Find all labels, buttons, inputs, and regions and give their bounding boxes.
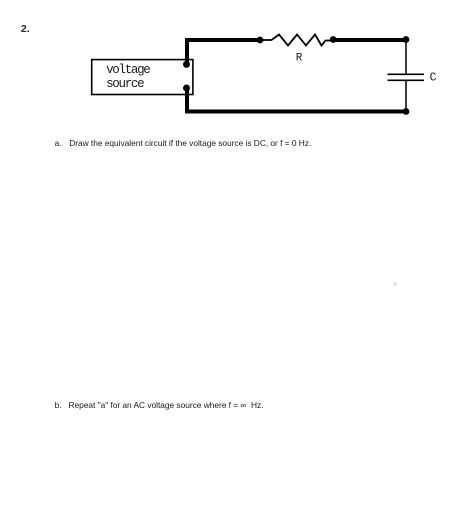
capacitor C top plate xyxy=(388,73,425,75)
problem number 2. xyxy=(21,23,30,35)
question b xyxy=(55,400,62,410)
node dot: resistor left xyxy=(257,37,264,44)
node dot: voltage source top terminal xyxy=(183,61,190,68)
svg-text:C: C xyxy=(430,71,437,84)
wire: top left segment xyxy=(185,38,260,42)
question a xyxy=(55,138,62,148)
node dot: top right corner xyxy=(403,36,410,43)
wire: capacitor bottom lead xyxy=(405,81,407,112)
node dot: bottom right corner xyxy=(403,108,410,115)
wire: left vertical upper segment xyxy=(185,40,189,65)
wire: bottom segment xyxy=(185,110,407,114)
wire: capacitor top lead xyxy=(405,40,407,74)
faint scan speck xyxy=(392,281,398,287)
svg-text:R: R xyxy=(296,53,303,65)
node dot: voltage source bottom terminal xyxy=(183,85,190,92)
wire: top right segment xyxy=(333,38,407,42)
svg-text:voltage: voltage xyxy=(106,63,150,77)
wire: left vertical lower segment xyxy=(185,88,189,112)
circuit schematic xyxy=(0,0,474,130)
resistor R zigzag xyxy=(260,35,333,46)
voltage source box xyxy=(92,60,193,95)
node dot: resistor right xyxy=(330,36,337,43)
svg-text:source: source xyxy=(106,77,144,91)
capacitor C bottom plate xyxy=(388,79,425,81)
